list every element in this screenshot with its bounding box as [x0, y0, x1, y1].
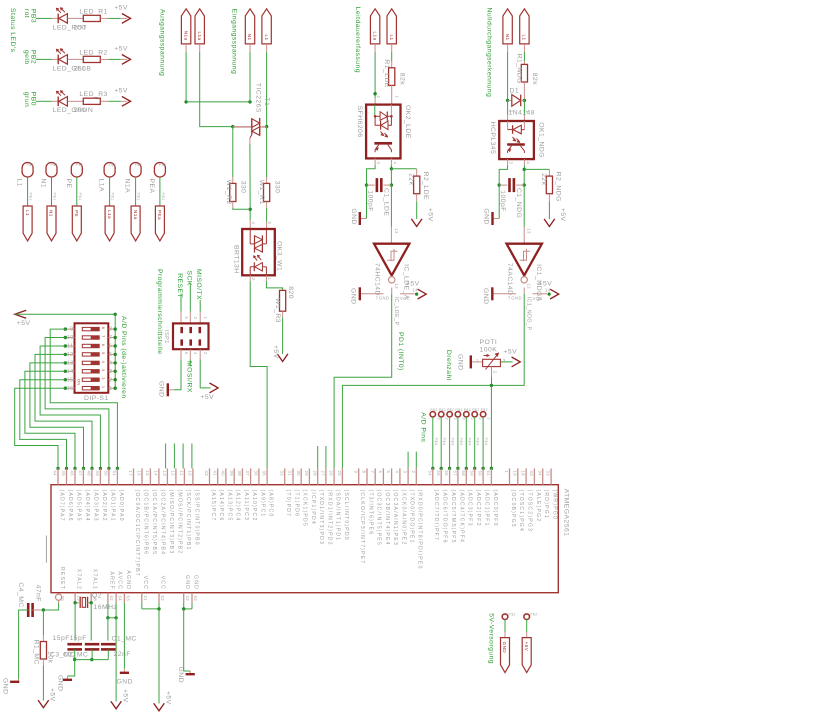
svg-text:R1_MC: R1_MC — [33, 640, 40, 665]
svg-text:4: 4 — [393, 162, 398, 165]
svg-text:(ADC2)PF2: (ADC2)PF2 — [475, 490, 481, 527]
svg-text:rot: rot — [23, 9, 30, 18]
dip left pin 13 — [65, 362, 74, 364]
IC pin 18 (TOSC2)PG3 — [525, 468, 527, 484]
wire dip pole 4 to IC — [35, 354, 92, 468]
wire pad N1 down — [51, 177, 53, 206]
svg-text:PE: PE — [65, 179, 72, 189]
svg-text:36: 36 — [254, 471, 259, 477]
ground GND at crystal caps — [67, 660, 74, 676]
IC pin 12 (MOSI/PCINT2)PB2 — [175, 468, 177, 484]
+5V at IC_LDE pin14 VCC — [400, 293, 415, 295]
svg-text:12: 12 — [171, 471, 176, 477]
wire AGND to GND — [123, 603, 125, 669]
svg-text:N1: N1 — [49, 210, 54, 217]
svg-text:1: 1 — [395, 96, 400, 99]
svg-text:P$2: P$2 — [430, 408, 437, 412]
svg-text:P$1: P$1 — [161, 193, 165, 201]
svg-text:(ICP1)PD4: (ICP1)PD4 — [310, 490, 316, 525]
wire OK2 pin3 to gnd node — [374, 158, 376, 164]
svg-text:(ADC6/TDO)PF6: (ADC6/TDO)PF6 — [442, 490, 448, 544]
svg-text:GND: GND — [158, 381, 165, 397]
junction L1a node — [231, 125, 234, 128]
svg-text:P$2: P$2 — [530, 613, 537, 617]
wire +5V bus to DIP — [15, 313, 116, 315]
+5V supply arrow left — [15, 310, 27, 318]
dip right pin 4 — [108, 362, 115, 364]
svg-text:4: 4 — [395, 471, 400, 474]
svg-text:(T1)PD6: (T1)PD6 — [293, 490, 299, 518]
wire R2_NDG to +5V — [548, 194, 550, 202]
svg-text:(AD4)PA4: (AD4)PA4 — [84, 490, 90, 522]
svg-text:(OC3B/INT4)PE4: (OC3B/INT4)PE4 — [384, 490, 390, 546]
IC pin 51 (AD0)PA0 — [116, 468, 118, 484]
net stub to pin 10 SS — [191, 444, 193, 469]
wire dip pole 6 to IC — [25, 371, 75, 468]
junction VCC — [157, 607, 160, 610]
pin flag L1 — [262, 9, 271, 44]
wire XTAL2 to crystal — [75, 602, 80, 604]
svg-text:14: 14 — [413, 288, 419, 293]
svg-text:2: 2 — [478, 418, 482, 421]
triac T1 TIC226S — [233, 126, 252, 128]
svg-text:330: 330 — [273, 181, 280, 194]
svg-text:L1a: L1a — [107, 210, 112, 219]
dip left pin 15 — [65, 379, 74, 381]
wire cap to inverter pin13 NDG — [523, 185, 525, 226]
wire N1 to OK1 pin2 — [507, 100, 509, 114]
svg-text:N1A: N1A — [124, 179, 131, 194]
svg-text:82k: 82k — [531, 73, 538, 85]
wire SCK to ISP pin3 — [189, 284, 191, 312]
svg-text:C1_LDE: C1_LDE — [383, 188, 390, 216]
svg-text:42: 42 — [204, 471, 209, 477]
svg-text:P$4: P$4 — [442, 438, 446, 446]
svg-text:14: 14 — [545, 288, 551, 293]
wire to +5V flag — [526, 620, 528, 633]
svg-text:AGND: AGND — [125, 570, 131, 590]
ground GND at C4_MC — [18, 679, 20, 681]
svg-text:+5V: +5V — [406, 280, 420, 287]
svg-text:grun: grun — [23, 92, 30, 107]
pin flag N1 — [47, 206, 56, 241]
svg-text:VCC: VCC — [142, 576, 148, 590]
svg-text:48: 48 — [87, 471, 92, 477]
wire A/D 6 to IC — [474, 417, 476, 468]
svg-text:(T3/INT6)PE6: (T3/INT6)PE6 — [367, 490, 373, 536]
+5V arrow down at AVCC — [111, 701, 122, 709]
wire OK3 pin2 to IC pin35 — [249, 275, 251, 281]
svg-text:(A15)PC7: (A15)PC7 — [210, 490, 216, 522]
svg-text:47: 47 — [78, 471, 83, 477]
IC pin 59 (ADC2)PF2 — [474, 468, 476, 484]
svg-text:P$2: P$2 — [464, 408, 471, 412]
wire dip pole 2 to IC — [45, 338, 109, 469]
svg-text:250: 250 — [74, 24, 87, 31]
svg-text:Q2: Q2 — [92, 593, 102, 600]
ground GND at IC — [189, 671, 191, 673]
junction pin4 — [390, 167, 393, 170]
svg-text:1: 1 — [504, 471, 509, 474]
svg-text:6: 6 — [267, 222, 272, 225]
pin flag N1 — [245, 9, 254, 44]
dip left pin 16 — [65, 387, 74, 389]
svg-text:HCPL345: HCPL345 — [489, 122, 496, 155]
svg-text:GND: GND — [117, 679, 133, 686]
svg-text:GND: GND — [184, 575, 190, 590]
dip left pin 12 — [65, 353, 74, 355]
IC pin 14 (OC2A/PCINT4)PB4 — [158, 468, 160, 484]
IC pin 35 (A8)PC0 — [266, 468, 268, 484]
svg-text:+5V: +5V — [524, 642, 529, 652]
svg-text:(ADC3)PF3: (ADC3)PF3 — [467, 490, 473, 527]
wire OK1 pin4 node — [523, 159, 525, 165]
svg-text:16: 16 — [137, 471, 142, 477]
svg-text:R2_LDE: R2_LDE — [422, 172, 429, 200]
svg-text:31: 31 — [288, 471, 293, 477]
svg-text:12: 12 — [394, 284, 399, 290]
IC pin 58 (ADC3)PF3 — [465, 468, 467, 484]
resistor R2_NDG 22k — [548, 169, 550, 176]
svg-text:2: 2 — [411, 471, 416, 474]
svg-text:2: 2 — [453, 418, 457, 421]
svg-text:(AD1)PA1: (AD1)PA1 — [109, 490, 115, 522]
svg-text:2: 2 — [487, 418, 491, 421]
svg-text:PE: PE — [74, 210, 79, 217]
svg-text:MOSI/RX: MOSI/RX — [185, 361, 192, 393]
wire POTI wiper to net — [491, 367, 493, 378]
IC pin 40 (A13)PC5 — [225, 468, 227, 484]
ground GND at AGND — [123, 669, 125, 672]
svg-text:16MHz: 16MHz — [94, 604, 118, 611]
IC pin 36 (A9)PC1 — [258, 468, 260, 484]
svg-text:50: 50 — [104, 471, 109, 477]
net stub to pin 28 TXD1 — [317, 446, 319, 468]
resistor W1_R3 820 — [280, 290, 286, 311]
connector pad PEA — [154, 163, 165, 178]
svg-text:30: 30 — [296, 471, 301, 477]
svg-text:57: 57 — [453, 471, 458, 477]
svg-text:+5V: +5V — [559, 208, 566, 222]
wire C4_MC to RESET pin — [33, 609, 44, 611]
pin header ISP1 — [173, 323, 209, 349]
svg-text:VCC: VCC — [533, 296, 543, 301]
IC pin 6 (OC3B/INT4)PE4 — [382, 468, 384, 484]
svg-text:L1: L1 — [264, 34, 269, 40]
wire pad L1 down — [27, 177, 29, 206]
svg-text:T1: T1 — [263, 98, 270, 107]
wire cap to inverter pin13 — [390, 185, 392, 226]
wire LED_R1 to +5V — [100, 17, 108, 19]
svg-text:Leitdauererfassung: Leitdauererfassung — [354, 7, 361, 73]
capacitor C1_NDG 100pF — [499, 184, 507, 186]
IC pin 3 (TXD0/PDO)PE1 — [407, 468, 409, 484]
IC pin 16 (OC1B/PCINT6)PB6 — [141, 468, 143, 484]
+5V supply arrow down — [277, 354, 288, 362]
wire GND pins join — [183, 603, 185, 609]
svg-text:GND: GND — [511, 296, 522, 301]
wire N1a to N1 — [186, 101, 250, 103]
+5V at POTI pin3 — [500, 361, 512, 363]
wire to GND flag — [504, 620, 506, 633]
wire net PB2 to LED — [36, 58, 52, 60]
svg-text:82k: 82k — [398, 73, 405, 85]
svg-text:12: 12 — [527, 284, 532, 290]
svg-text:W1_R2: W1_R2 — [225, 180, 232, 205]
svg-text:15: 15 — [145, 471, 150, 477]
svg-text:29: 29 — [304, 471, 309, 477]
dip left pin 9 — [65, 328, 74, 330]
svg-text:6: 6 — [184, 352, 189, 355]
svg-text:64: 64 — [117, 596, 122, 602]
svg-text:PEA: PEA — [148, 179, 155, 194]
svg-text:(OC3C/INT5)PE5: (OC3C/INT5)PE5 — [376, 490, 382, 546]
net stub MOSI/RX at ISP pin4 — [189, 349, 191, 359]
svg-text:Status LED's: Status LED's — [9, 8, 16, 53]
svg-text:5: 5 — [184, 317, 189, 320]
svg-text:ON: ON — [77, 379, 81, 386]
svg-text:A/D Pins: A/D Pins — [420, 412, 427, 442]
svg-text:GND: GND — [2, 678, 9, 694]
svg-text:R1_NDG: R1_NDG — [515, 54, 522, 84]
dip left pin 11 — [65, 345, 74, 347]
junction cap right — [390, 183, 393, 186]
IC pin 56 (ADC5/TMS)PF5 — [449, 468, 451, 484]
svg-text:11: 11 — [179, 471, 184, 476]
svg-text:(CLKO/ICP3/INT7)PE7: (CLKO/ICP3/INT7)PE7 — [359, 490, 365, 565]
wire A/D 4 to IC — [457, 417, 459, 468]
capacitor C1_LDE 100pF — [367, 184, 375, 186]
svg-text:P$2: P$2 — [51, 163, 58, 167]
svg-text:ISP1: ISP1 — [163, 330, 169, 344]
connector pad A/D 3 — [447, 412, 452, 417]
svg-text:L1: L1 — [16, 179, 23, 187]
svg-text:N1a: N1a — [133, 210, 138, 220]
svg-text:AVCC: AVCC — [117, 571, 123, 590]
svg-text:MISO/TX: MISO/TX — [195, 269, 202, 300]
net stub to pin 12 MOSI — [173, 444, 175, 469]
IC pin 30 (XCK1)PD5 — [300, 468, 302, 484]
svg-text:R1_LDE: R1_LDE — [383, 59, 390, 87]
wire caps to GND bus — [74, 649, 76, 659]
svg-text:(AD3)PA3: (AD3)PA3 — [92, 490, 98, 522]
resistor R1_NDG 82k — [523, 44, 525, 52]
svg-text:Programmierschnittstelle: Programmierschnittstelle — [156, 269, 163, 355]
IC pin 25 (SCL/INT0)PD0 — [341, 468, 343, 484]
dip left pin 14 — [65, 370, 74, 372]
svg-text:W1_R3: W1_R3 — [274, 298, 281, 323]
net stub to pin 3 TXD0 — [407, 452, 409, 469]
svg-text:R2_NDG: R2_NDG — [555, 172, 562, 202]
svg-text:TIC226S: TIC226S — [255, 83, 262, 113]
IC pin 38 (A11)PC3 — [241, 468, 243, 484]
svg-text:820: 820 — [287, 286, 294, 299]
svg-text:33: 33 — [546, 471, 551, 477]
svg-text:2: 2 — [508, 110, 513, 113]
IC pin 8 (T3/INT6)PE6 — [366, 468, 368, 484]
svg-text:59: 59 — [469, 471, 474, 477]
IC pin 46 (AD5)PA5 — [74, 468, 76, 484]
svg-text:SCK: SCK — [185, 271, 192, 286]
svg-text:GND: GND — [457, 354, 464, 370]
IC pin 61 (ADC0)PF0 — [490, 468, 492, 484]
IC pin 48 (AD3)PA3 — [91, 468, 93, 484]
svg-text:100pF: 100pF — [367, 190, 374, 212]
svg-text:(TXD1/INT3)PD3: (TXD1/INT3)PD3 — [318, 490, 324, 546]
dip switch pole 2 — [82, 336, 99, 339]
resistor R2_LDE 22k — [416, 169, 418, 176]
svg-text:74AC14D: 74AC14D — [506, 263, 513, 296]
resistor LED_R3 — [68, 100, 84, 102]
IC pin 10 (SS/PCINT0)PB0 — [192, 468, 194, 484]
svg-text:6: 6 — [109, 344, 112, 350]
svg-text:XTAL2: XTAL2 — [76, 569, 82, 590]
wire pin4 to R2_NDG — [524, 168, 549, 170]
wire XTAL1 to crystal — [88, 602, 92, 604]
svg-text:10: 10 — [67, 335, 74, 341]
dip right pin 8 — [108, 328, 115, 330]
svg-text:L1a: L1a — [372, 31, 377, 40]
svg-text:60: 60 — [478, 471, 483, 477]
RESET overline mark — [45, 536, 47, 563]
wire L1 to OK1 pin1 — [523, 100, 525, 114]
svg-text:C1_NDG: C1_NDG — [515, 188, 522, 218]
svg-text:(RXD1/INT2)PD2: (RXD1/INT2)PD2 — [326, 490, 332, 546]
wire LED_R3 to +5V — [100, 100, 108, 102]
svg-text:(ADC5/TMS)PF5: (ADC5/TMS)PF5 — [450, 490, 456, 544]
connector pad PE — [71, 163, 82, 178]
pin flag N1a — [131, 206, 140, 241]
wire C1_MC to gnd bus — [107, 649, 109, 659]
crystal Q2 16MHz — [79, 597, 81, 608]
wire L1a down — [199, 44, 201, 52]
svg-text:(OC0A/OC1C/PCINT7)PB7: (OC0A/OC1C/PCINT7)PB7 — [134, 490, 140, 577]
svg-text:7: 7 — [370, 471, 375, 474]
svg-text:2: 2 — [376, 96, 381, 99]
wire pad PEA down — [159, 177, 161, 206]
svg-text:N1: N1 — [40, 179, 47, 189]
svg-text:32: 32 — [279, 471, 284, 477]
wire VCC pins join — [141, 603, 143, 609]
IC pin 33 (WR)PG0 — [550, 468, 552, 484]
svg-text:330: 330 — [240, 181, 247, 194]
connector pad GND supply — [502, 614, 508, 620]
wire N1 down — [249, 44, 251, 52]
svg-text:L1: L1 — [25, 210, 30, 216]
svg-text:IC1_NDG_P: IC1_NDG_P — [525, 297, 531, 331]
svg-text:1: 1 — [203, 317, 208, 320]
junction reset node — [42, 608, 45, 611]
svg-text:21: 21 — [143, 596, 148, 602]
svg-text:(A12)PC4: (A12)PC4 — [235, 490, 241, 522]
svg-text:(AD0)PA0: (AD0)PA0 — [118, 490, 124, 522]
svg-text:22: 22 — [185, 596, 190, 602]
svg-text:LED_R1: LED_R1 — [79, 8, 107, 15]
dip switch pole 1 — [82, 327, 99, 330]
svg-text:37: 37 — [245, 471, 250, 477]
svg-text:1: 1 — [525, 110, 530, 113]
svg-text:P$2: P$2 — [439, 408, 446, 412]
svg-text:Eingangsspannung: Eingangsspannung — [231, 9, 238, 74]
junction gate node — [249, 208, 252, 211]
resistor R1_MC 10k — [42, 610, 44, 635]
ground GND at C1_LDE — [366, 185, 368, 218]
junction L1 node — [265, 125, 268, 128]
svg-text:N1: N1 — [505, 34, 510, 41]
dip right pin 2 — [108, 379, 115, 381]
svg-text:63: 63 — [126, 596, 131, 602]
svg-text:13: 13 — [67, 361, 74, 367]
svg-text:28: 28 — [312, 471, 317, 477]
pin flag L1a LDE — [370, 9, 379, 44]
optocoupler OK1_NDG HCPL345 — [499, 121, 534, 159]
svg-text:VCC: VCC — [159, 576, 165, 590]
svg-text:P$4: P$4 — [476, 438, 480, 446]
svg-text:(AD7)PA7: (AD7)PA7 — [58, 490, 64, 522]
svg-text:5V-Versorgung: 5V-Versorgung — [488, 613, 495, 664]
pin flag L1 LDE — [387, 9, 396, 44]
connector pad A/D 5 — [464, 412, 469, 417]
svg-text:L1a: L1a — [197, 31, 202, 40]
svg-text:3: 3 — [403, 471, 408, 474]
svg-text:(ALE)PG2: (ALE)PG2 — [535, 490, 541, 523]
dip switch pole 3 — [82, 344, 99, 347]
svg-text:12: 12 — [67, 352, 74, 358]
+5V arrow down at VCC — [154, 703, 165, 711]
svg-text:+5V: +5V — [122, 689, 129, 703]
pin flag N1 NDG — [503, 9, 512, 44]
wire pin4 down to cap — [390, 169, 392, 185]
svg-text:PEa: PEa — [157, 210, 162, 220]
pin flag L1a — [195, 9, 204, 44]
svg-text:OK1_NDG: OK1_NDG — [537, 122, 544, 158]
svg-text:27: 27 — [321, 471, 326, 477]
connector pad N1 — [46, 163, 57, 178]
wire OK3 pin1 to W1_R3 — [265, 275, 267, 281]
connector pad A/D 2 — [439, 412, 444, 417]
resistor R1_LDE 82k — [391, 44, 393, 52]
+5V at IC1_NDG pin14 VCC — [533, 293, 548, 295]
net stub to pin 27 RXD1 — [325, 446, 327, 468]
svg-text:N1: N1 — [247, 34, 252, 41]
IC pin 32 (T0)PD7 — [284, 468, 286, 484]
svg-text:LED_R3: LED_R3 — [79, 91, 107, 98]
wire W1_R1 to OK3 pin6 — [266, 202, 268, 208]
svg-text:A/D Pins (de-)aktivieren: A/D Pins (de-)aktivieren — [120, 316, 127, 399]
svg-text:W1_R1: W1_R1 — [258, 180, 265, 205]
svg-text:C4_MC: C4_MC — [17, 582, 24, 607]
svg-text:58: 58 — [461, 471, 466, 477]
wire triac MT2 to L1 — [262, 126, 267, 128]
svg-text:P$2: P$2 — [76, 163, 83, 167]
connector pad +5V supply — [524, 614, 530, 620]
wire pad PE down — [76, 177, 78, 206]
wire AREF to bridge — [107, 603, 109, 618]
svg-text:P$4: P$4 — [459, 438, 463, 446]
wire DIP right bus — [114, 314, 116, 388]
wire dip pole 1 to IC — [50, 329, 117, 468]
svg-text:3: 3 — [109, 369, 112, 375]
wire R2_LDE to +5V — [416, 194, 418, 202]
svg-text:P$2: P$2 — [447, 408, 454, 412]
wire dip pole 7 to IC — [20, 380, 67, 469]
svg-text:(ADC0)PF0: (ADC0)PF0 — [492, 490, 498, 527]
svg-text:17: 17 — [128, 471, 133, 477]
svg-text:(SCL/INT0)PD0: (SCL/INT0)PD0 — [343, 490, 349, 541]
svg-text:ATMEGA2561: ATMEGA2561 — [563, 489, 570, 537]
svg-text:14: 14 — [67, 369, 74, 375]
svg-text:13: 13 — [394, 228, 399, 234]
